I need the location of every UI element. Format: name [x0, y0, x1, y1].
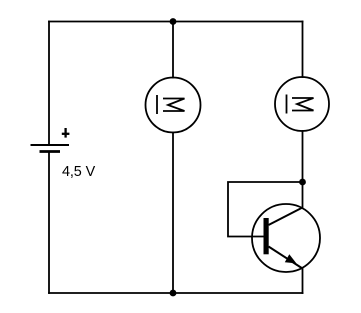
svg-text:4,5 V: 4,5 V [62, 164, 96, 180]
